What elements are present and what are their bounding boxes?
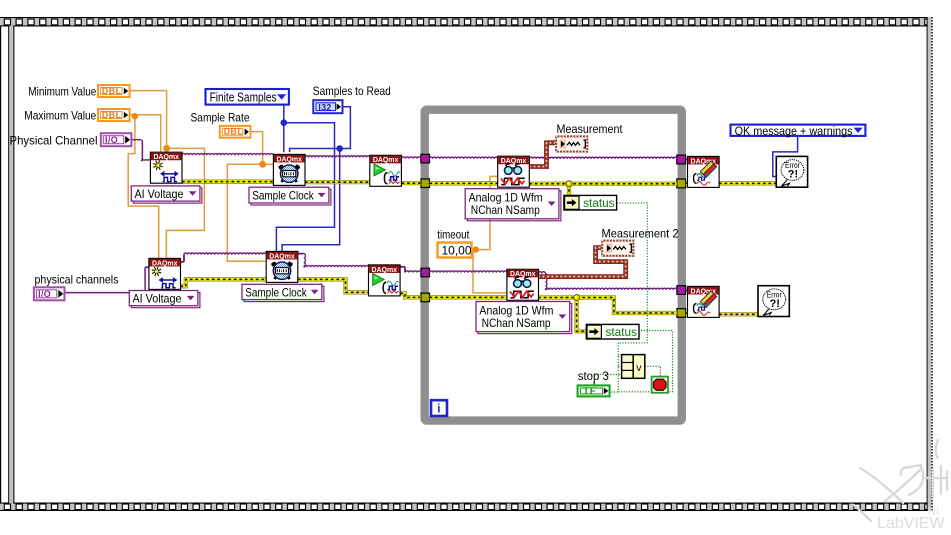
- Physical Channel I/O control: [101, 133, 132, 146]
- wire: error timing VI 2 to start VI 2: [298, 279, 369, 292]
- svg-text:AI Voltage: AI Voltage: [135, 187, 184, 201]
- wire: task timing VI 2 to start VI 2 (purple): [298, 253, 304, 255]
- Measurement 2 waveform indicator: [602, 241, 633, 256]
- Sample Rate DBL constant: [220, 126, 251, 138]
- svg-text:physical channels: physical channels: [35, 272, 119, 286]
- loop iteration terminal i: [431, 400, 447, 416]
- wire: task read VI 2 to right tunnel (purple): [538, 272, 545, 274]
- left crop line of neighbouring structure: [0, 26, 1, 503]
- wire: error create VI 1 to timing VI 1 (yellow dashed): [182, 180, 273, 184]
- flat sequence frame: left vertical band: [8, 26, 14, 504]
- svg-text:Sample Rate: Sample Rate: [191, 111, 250, 125]
- flat sequence frame: right vertical band with dashed edge: [927, 17, 933, 511]
- wire: physical channels I/O 2 to create VI 2 (purple name wire): [66, 292, 146, 293]
- svg-text:Physical Channel: Physical Channel: [10, 133, 98, 147]
- stop 3 TF boolean terminal: [578, 385, 610, 396]
- AI Voltage polymorphic selector 1: [131, 186, 202, 203]
- DAQmx Create Virtual Channel VI 1: [150, 152, 182, 183]
- wire: task create VI 1 to timing VI 1 (purple): [182, 154, 274, 156]
- svg-text:AI Voltage: AI Voltage: [133, 292, 182, 306]
- DAQmx Read VI 2: [507, 269, 539, 300]
- flat sequence frame: bottom film strip: [0, 503, 932, 512]
- wire: error branch down to status unbundle 2: [577, 298, 587, 332]
- wire: physical channel I/O 1 to create VI 1 (purple name wire): [132, 139, 141, 140]
- loop tunnel: error in (top chain): [421, 179, 430, 188]
- DAQmx Clear Task VI 2: [688, 286, 720, 317]
- AI Voltage polymorphic selector 2: [129, 291, 200, 308]
- svg-text:?!: ?!: [770, 298, 780, 310]
- Analog 1D Wfm NChan NSamp selector 2: [476, 302, 572, 334]
- wire: Samples to Read I32 to timing VI 1 and timing VI 2 (blue): [290, 107, 351, 152]
- wire: waveform data read VI 2 to Measurement 2 indicator (maroon striped): [538, 248, 625, 277]
- svg-text:I32: I32: [318, 102, 331, 112]
- wire: task create VI 2 to timing VI 2 (purple): [180, 261, 184, 263]
- DAQmx Start Task VI 1: [370, 155, 402, 186]
- wire: timeout constant to read VI 1 and read VI 2 (orange): [472, 176, 498, 249]
- svg-text:DAQmx: DAQmx: [152, 258, 178, 267]
- DAQmx Timing VI 2 (Sample Clock): [266, 251, 298, 282]
- wire: Finite Samples enum to timing VI 1 and timing VI 2 (blue): [283, 106, 285, 153]
- svg-text:DBL: DBL: [102, 86, 122, 96]
- svg-text:NI: NI: [928, 506, 939, 518]
- svg-text:DAQmx: DAQmx: [153, 152, 179, 161]
- svg-text:10,00: 10,00: [442, 243, 472, 257]
- wire: error clear VI 1 to error handler 1: [719, 181, 776, 185]
- wire: OK message enum to error handler 1 (blue): [773, 137, 798, 177]
- DAQmx Clear Task VI 1: [688, 156, 720, 187]
- junction dot on Minimum Value wire: [163, 145, 170, 152]
- wire: error clear VI 2 to error handler 2: [719, 312, 758, 316]
- loop condition terminal with stop button: [652, 377, 668, 393]
- wire: Or node output to loop condition terminal (green dotted): [645, 366, 661, 377]
- svg-text:DAQmx: DAQmx: [276, 154, 302, 163]
- junction dot on Samples to Read wire: [336, 145, 343, 152]
- wire: error start VI 2 to loop tunnel: [400, 293, 421, 297]
- svg-text:NChan NSamp: NChan NSamp: [482, 316, 551, 330]
- svg-text:Sample Clock: Sample Clock: [245, 285, 307, 299]
- flat sequence frame: top film strip: [0, 17, 932, 27]
- svg-text:timeout: timeout: [437, 228, 470, 242]
- svg-text:DBL: DBL: [102, 110, 122, 120]
- wire: error inside loop to read VI 1: [430, 181, 498, 185]
- wire: task start VI 2 to loop tunnel (purple): [400, 266, 405, 268]
- Maximum Value DBL constant: [98, 109, 130, 121]
- svg-text:DBL: DBL: [224, 127, 244, 137]
- junction dot on Sample Rate wire: [259, 161, 266, 168]
- svg-text:status: status: [583, 196, 615, 210]
- unbundle by name: status 2: [586, 324, 639, 339]
- svg-text:Finite Samples: Finite Samples: [210, 91, 277, 105]
- OK message + warnings enum constant: [731, 124, 866, 138]
- wire: error read VI 1 to right tunnel: [529, 182, 677, 186]
- Sample Clock polymorphic selector 2: [242, 284, 324, 301]
- svg-text:stop 3: stop 3: [578, 369, 609, 383]
- svg-text:DAQmx: DAQmx: [510, 269, 536, 278]
- wire: error inside loop to read VI 2: [430, 295, 507, 299]
- DAQmx Read VI 1: [498, 156, 530, 187]
- wire: status 1 boolean to Or node (green dotted): [617, 203, 648, 392]
- svg-text:Measurement 2: Measurement 2: [602, 226, 679, 240]
- unbundle by name: status 1: [564, 195, 617, 210]
- wire: Maximum Value DBL to create VI 1 and create VI 2 (orange): [131, 115, 161, 152]
- wire: Minimum Value DBL to create VI 1 and create VI 2 (orange): [131, 91, 167, 152]
- svg-text:DAQmx: DAQmx: [373, 155, 399, 164]
- DAQmx Create Virtual Channel VI 2: [149, 258, 181, 289]
- Measurement waveform indicator 1: [556, 136, 587, 151]
- timeout numeric constant 10,00: [438, 243, 472, 258]
- junction dot on Maximum Value wire: [132, 113, 138, 119]
- svg-text:I/O: I/O: [105, 135, 118, 145]
- svg-text:?!: ?!: [788, 169, 798, 181]
- svg-text:i: i: [437, 404, 440, 416]
- Simple Error Handler VI 1: [776, 156, 807, 187]
- svg-text:Measurement: Measurement: [557, 122, 624, 136]
- wire: error timing VI 1 to start VI 1: [305, 180, 370, 184]
- junction dot on timeout wire: [473, 246, 479, 252]
- wire: waveform data read VI 1 to Measurement indicator (maroon striped): [529, 143, 556, 167]
- while loop border: [425, 110, 682, 421]
- svg-text:Sample Clock: Sample Clock: [252, 189, 314, 203]
- svg-text:v: v: [636, 362, 642, 374]
- wire: error tunnel to clear VI 1: [686, 181, 688, 185]
- svg-text:OK message + warnings: OK message + warnings: [735, 124, 853, 138]
- loop tunnel: error out (top chain): [677, 179, 686, 188]
- wire: error start VI 1 to loop tunnel: [402, 181, 421, 185]
- error wire junction 2: [574, 295, 580, 301]
- Sample Clock polymorphic selector 1: [249, 187, 331, 205]
- loop tunnel: task in (top chain): [421, 154, 430, 163]
- wire: task start VI 1 to loop tunnel (purple): [402, 157, 421, 159]
- svg-text:I/O: I/O: [38, 289, 51, 299]
- svg-text:DAQmx: DAQmx: [269, 251, 295, 260]
- wire: task tunnel to clear VI 1 (purple): [686, 159, 688, 161]
- svg-text:NChan NSamp: NChan NSamp: [471, 203, 540, 217]
- Analog 1D Wfm NChan NSamp selector 1: [465, 189, 561, 221]
- DAQmx Start Task VI 2: [369, 265, 401, 296]
- physical channels I/O control 2: [34, 287, 65, 300]
- Finite Samples enum constant: [206, 89, 289, 105]
- Samples to Read I32 constant: [313, 100, 342, 113]
- loop tunnel: task out (bottom chain): [677, 286, 686, 295]
- loop tunnel: task out (top chain): [677, 155, 686, 164]
- Simple Error Handler VI 2: [758, 286, 789, 317]
- junction dot on Finite Samples wire: [281, 119, 288, 126]
- loop tunnel: error in (bottom chain): [421, 293, 430, 302]
- wire: error branch down to status unbundle 1: [567, 184, 571, 196]
- svg-text:DAQmx: DAQmx: [372, 265, 398, 274]
- wire: stop 3 boolean to Or node (green dotted): [609, 391, 619, 393]
- loop tunnel: error out (bottom chain): [677, 309, 686, 318]
- svg-text:DAQmx: DAQmx: [501, 156, 527, 165]
- Minimum Value DBL constant: [98, 85, 130, 97]
- loop tunnel: task in (bottom chain): [421, 268, 430, 277]
- svg-text:Maximum Value: Maximum Value: [24, 108, 96, 122]
- wire: task timing VI 1 to start VI 1 (purple): [305, 156, 370, 158]
- wire: task read VI 1 to right tunnel (purple): [529, 157, 676, 159]
- label tick for stop 3: [593, 382, 595, 385]
- error wire junction 1: [566, 181, 572, 187]
- wire: task inside loop to read VI 2 (purple): [430, 271, 507, 273]
- wire: Sample Rate DBL to timing VI 1 and timing VI 2 (orange): [251, 132, 273, 165]
- DAQmx Timing VI 1 (Sample Clock): [273, 154, 305, 185]
- wire: error read VI 2 to right tunnel: [538, 298, 677, 314]
- wire: task tunnel to clear VI 2 (purple): [686, 289, 688, 291]
- svg-text:status: status: [606, 325, 638, 339]
- wire: error tunnel to clear VI 2: [686, 311, 688, 315]
- wire: error create VI 2 to timing VI 2: [180, 279, 266, 286]
- faint watermark bottom right: [854, 440, 947, 521]
- wire: status 2 boolean to Or node (green dotted): [618, 331, 672, 392]
- wire: task inside loop to read VI 1 (purple): [430, 157, 498, 159]
- svg-text:Minimum Value: Minimum Value: [28, 84, 96, 98]
- svg-text:TF: TF: [583, 386, 596, 396]
- svg-text:Samples to Read: Samples to Read: [313, 84, 391, 98]
- compound arithmetic Or node: [622, 355, 645, 379]
